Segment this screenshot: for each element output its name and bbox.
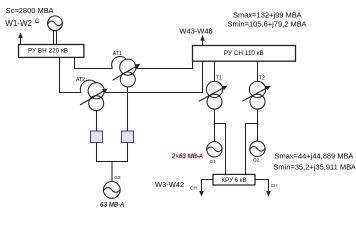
- bus box PU SN 110 kV: [193, 46, 296, 62]
- svg-text:Т1: Т1: [216, 76, 222, 82]
- wire: breakers join to generator G3: [97, 143, 128, 162]
- feeder arrow W1-W2: [20, 37, 22, 45]
- svg-text:Smin=105,6+j79,2 МВА: Smin=105,6+j79,2 МВА: [228, 19, 307, 28]
- svg-text:Smax=44+j44,889 МВА: Smax=44+j44,889 МВА: [274, 151, 353, 160]
- wire: AT1 LV down to breaker: [127, 87, 129, 131]
- svg-text:КРУ 6 кВ: КРУ 6 кВ: [221, 177, 246, 184]
- svg-text:С: С: [35, 18, 40, 25]
- svg-text:2×63 МВ-А: 2×63 МВ-А: [171, 153, 203, 160]
- svg-text:РУ СН 110 кВ: РУ СН 110 кВ: [224, 50, 264, 57]
- svg-text:W43-W48: W43-W48: [179, 27, 212, 36]
- svg-text:СН: СН: [271, 183, 278, 188]
- wire: PU SN stub to T2: [257, 61, 259, 81]
- generator G3: [103, 182, 120, 199]
- svg-text:Smin=35,2+j35,911 МВА: Smin=35,2+j35,911 МВА: [273, 162, 356, 171]
- feeder arrow W43-W48: [202, 40, 204, 46]
- svg-text:АТ1: АТ1: [113, 51, 122, 57]
- wire: T1 tap to KRU: [215, 124, 226, 175]
- svg-text:W1-W2: W1-W2: [5, 19, 32, 28]
- transformer T2: [249, 81, 265, 97]
- wire: double line from source C to PU VN bus: [53, 31, 55, 45]
- wire: AT2 to PU SN bus: [104, 61, 202, 92]
- svg-text:Т2: Т2: [259, 76, 265, 82]
- bus box PU VN 220 kV: [19, 45, 84, 58]
- svg-text:Sc=2800 МВА: Sc=2800 МВА: [6, 6, 54, 15]
- autotransformer AT2: [80, 80, 96, 92]
- wire: AT2 LV down to breaker: [96, 111, 98, 131]
- svg-text:G1: G1: [210, 159, 217, 165]
- generator G1: [207, 142, 222, 157]
- wire: KRU left auxiliary feeder: [202, 180, 214, 193]
- autotransformer AT1: [112, 56, 127, 68]
- svg-text:Smax=132+j99 МВА: Smax=132+j99 МВА: [233, 10, 302, 19]
- svg-text:СН: СН: [190, 185, 197, 190]
- switchgear box KRU 6 kV: [213, 174, 255, 185]
- wire: AT1 to PU SN bus: [136, 61, 193, 68]
- svg-text:W3-W42: W3-W42: [155, 180, 184, 189]
- wire: T1 LV to generator G1: [214, 109, 216, 142]
- svg-text:РУ ВН 220 кВ: РУ ВН 220 кВ: [28, 47, 68, 54]
- wire: PU VN stub to AT2: [60, 57, 81, 92]
- svg-text:63 МВ-А: 63 МВ-А: [100, 201, 124, 208]
- wire: PU VN stub to AT1: [75, 57, 113, 68]
- svg-text:G3: G3: [114, 175, 121, 181]
- wire: T2 LV to generator G2: [257, 109, 259, 141]
- breaker square left: [91, 131, 103, 143]
- generator G2: [250, 141, 265, 156]
- wire: KRU right auxiliary feeder: [255, 180, 269, 193]
- breaker square right: [122, 131, 134, 143]
- svg-text:G2: G2: [253, 158, 260, 164]
- wire: T2 tap to KRU: [246, 124, 258, 175]
- transformer T1: [206, 81, 222, 97]
- wire: PU SN stub to T1: [214, 61, 216, 81]
- system source C: [48, 16, 63, 31]
